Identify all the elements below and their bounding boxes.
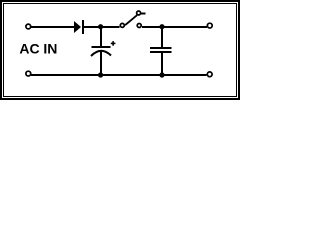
capacitor C1 curved bottom plate bbox=[91, 51, 111, 56]
wire C1 upper lead bbox=[100, 27, 102, 46]
switch right contact bbox=[137, 24, 141, 28]
capacitor C1 top plate bbox=[92, 46, 111, 48]
border frame outer bbox=[0, 0, 240, 100]
wire top segment 2 bbox=[84, 26, 120, 28]
terminal bottom-left bbox=[26, 71, 31, 76]
wire C1 lower lead bbox=[100, 51, 102, 75]
wire top segment 3 bbox=[142, 26, 207, 28]
capacitor C2 bottom plate bbox=[150, 51, 172, 53]
terminal bottom-right bbox=[207, 72, 212, 77]
switch left contact bbox=[120, 23, 124, 27]
wire bottom segment bbox=[31, 74, 207, 76]
wire C2 lower lead bbox=[161, 53, 163, 75]
node junction top-left bbox=[98, 24, 103, 29]
terminal top-left bbox=[26, 24, 31, 29]
switch lever end circle bbox=[137, 11, 141, 15]
diode cathode bar bbox=[82, 20, 84, 34]
capacitor C2 top plate bbox=[150, 47, 172, 49]
node junction top-right bbox=[159, 24, 164, 29]
diode anode triangle bbox=[74, 21, 81, 33]
wire top segment 1 bbox=[31, 26, 75, 28]
border frame inner bbox=[4, 4, 237, 97]
svg-text:AC IN: AC IN bbox=[19, 40, 57, 56]
terminal top-right bbox=[207, 23, 212, 28]
switch actuator stub bbox=[141, 13, 146, 15]
capacitor C1 plus sign bbox=[111, 41, 116, 46]
node junction bottom-right bbox=[159, 72, 164, 77]
node junction bottom-left bbox=[98, 72, 103, 77]
switch lever bbox=[125, 15, 137, 25]
wire C2 upper lead bbox=[161, 27, 163, 47]
